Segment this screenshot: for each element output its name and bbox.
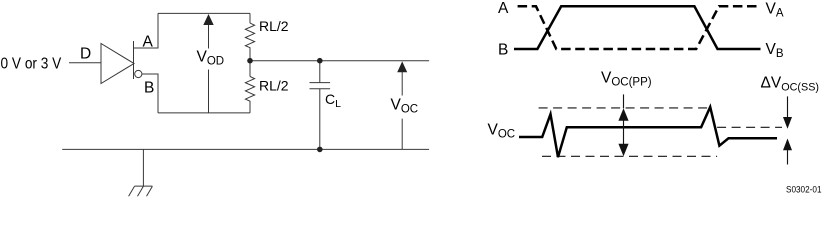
svg-text:RL/2: RL/2	[259, 78, 289, 94]
svg-text:A: A	[498, 0, 509, 17]
svg-text:S0302-01: S0302-01	[786, 185, 822, 195]
svg-text:A: A	[143, 34, 154, 51]
svg-text:B: B	[498, 42, 508, 59]
svg-text:B: B	[144, 80, 154, 97]
svg-text:0 V or 3 V: 0 V or 3 V	[1, 56, 62, 73]
svg-text:D: D	[80, 45, 91, 62]
svg-text:RL/2: RL/2	[259, 18, 289, 34]
